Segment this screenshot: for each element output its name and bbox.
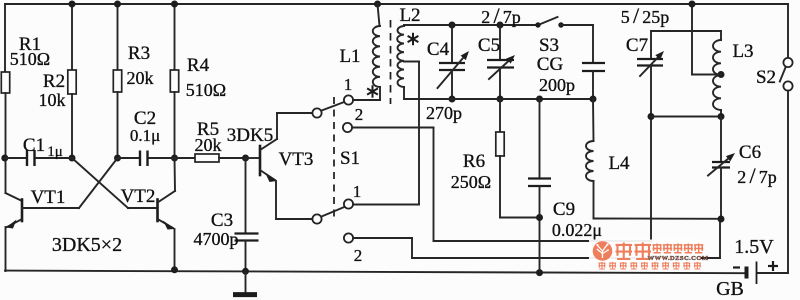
transistor VT3 <box>246 157 259 159</box>
wire contact1 to L1 bottom <box>353 99 380 101</box>
contact 2 upper <box>343 123 352 132</box>
svg-text:S3: S3 <box>539 35 559 56</box>
node C7 bottom junction <box>648 113 655 120</box>
switch S1 mechanical link (dashed) <box>333 97 335 218</box>
wire ground rail bottom <box>5 271 746 274</box>
svg-text:L2: L2 <box>399 5 420 26</box>
battery GB <box>745 267 749 279</box>
svg-text:C4: C4 <box>427 39 450 60</box>
svg-text:1.5V: 1.5V <box>734 236 774 258</box>
svg-text:L3: L3 <box>732 41 753 62</box>
resistor R1 <box>1 72 9 93</box>
contact 1 upper <box>344 95 353 104</box>
node R6/C9 junction <box>536 214 543 221</box>
node CG bottom / L4 top <box>590 96 597 103</box>
svg-text:L1: L1 <box>339 46 360 67</box>
capacitor C9 <box>536 96 543 103</box>
node D VT2 collector junction <box>171 155 178 162</box>
svg-text:C7: C7 <box>626 35 648 56</box>
wire S2 to battery positive <box>787 91 789 273</box>
resistor R3 <box>117 4 119 70</box>
node VT2 emitter on ground rail <box>171 266 178 273</box>
inductor L4 <box>592 99 595 141</box>
svg-text:R3: R3 <box>128 43 150 64</box>
capacitor C4 (variable) <box>449 22 456 29</box>
svg-text:4700p: 4700p <box>194 229 239 249</box>
polarity mark L1 <box>372 85 374 97</box>
resistor R4 <box>174 4 176 70</box>
svg-text:C3: C3 <box>211 210 233 231</box>
svg-text:L4: L4 <box>608 153 630 174</box>
svg-text:CG: CG <box>537 54 564 75</box>
resistor R6 <box>499 99 501 132</box>
svg-text:510Ω: 510Ω <box>186 80 226 100</box>
capacitor C5 (variable) <box>497 22 504 29</box>
ground <box>245 271 247 293</box>
inductor L1 (transformer primary) <box>374 1 381 8</box>
svg-text:0.022μ: 0.022μ <box>552 220 602 240</box>
svg-text:5/25p: 5/25p <box>621 3 670 28</box>
watermark 维库 <box>616 243 633 260</box>
wire S1 upper contact2 to C7 bottom node <box>433 128 435 242</box>
capacitor C2 <box>118 157 139 159</box>
inductor L3 <box>720 31 722 40</box>
watermark 电子市场网 <box>653 244 662 253</box>
wire oscillator bottom rail <box>404 98 593 100</box>
capacitor C1 <box>5 157 26 159</box>
watermark 专业电子元器件交易网站 <box>599 262 606 269</box>
wire contact2 lower to C6 bottom node <box>353 237 412 239</box>
svg-text:200p: 200p <box>539 75 575 95</box>
resistor R5 <box>175 157 196 159</box>
watermark backing <box>589 240 701 263</box>
watermark logo circle <box>593 241 613 261</box>
wire oscillator top rail B <box>403 25 405 26</box>
svg-text:2/7p: 2/7p <box>737 163 777 188</box>
node C9 ground junction <box>536 269 543 276</box>
wire contact2 upper going right <box>352 127 433 129</box>
svg-text:2: 2 <box>354 246 363 265</box>
node E VT3 base / C3 junction <box>242 155 249 162</box>
wire C7 bottom to L3 bottom <box>651 116 721 118</box>
node A VT1 collector junction <box>1 155 8 162</box>
svg-text:R4: R4 <box>187 55 210 76</box>
svg-text:VT3: VT3 <box>279 149 314 170</box>
svg-text:1: 1 <box>344 75 353 94</box>
switch S2 <box>787 4 789 58</box>
capacitor C3 <box>245 158 247 233</box>
svg-text:3DK5×2: 3DK5×2 <box>52 234 122 256</box>
resistor R2 <box>71 4 73 70</box>
svg-text:S2: S2 <box>756 67 776 88</box>
node C6 bottom junction <box>718 216 725 223</box>
wire cross-couple node C to VT1 base <box>79 158 118 208</box>
svg-text:C5: C5 <box>478 35 500 56</box>
svg-text:3DK5: 3DK5 <box>227 125 273 146</box>
wire R1 bottom to collector node A <box>5 93 7 158</box>
node C4 bottom <box>449 96 456 103</box>
svg-text:WWW.DZSC.COM: WWW.DZSC.COM <box>648 255 709 262</box>
svg-text:GB: GB <box>716 278 744 300</box>
svg-text:20k: 20k <box>127 68 154 88</box>
wire contact1 lower to L2 tap <box>353 204 419 206</box>
svg-text:C6: C6 <box>739 142 761 163</box>
switch S1 pole 2 (lower, from VT3 emitter) <box>312 214 321 223</box>
capacitor C6 (variable) <box>720 117 722 163</box>
wire left edge down from rail <box>4 4 6 72</box>
transistor VT1 <box>6 193 23 201</box>
wire L4 bottom to C6 bottom node <box>594 218 722 220</box>
svg-text:250Ω: 250Ω <box>451 172 491 192</box>
svg-text:0.1μ: 0.1μ <box>130 126 160 145</box>
node L3 bottom junction <box>718 113 725 120</box>
svg-text:VT2: VT2 <box>121 186 156 207</box>
switch S1 pole 1 (upper, from VT3 collector) <box>312 108 321 117</box>
node C3 ground junction <box>242 268 249 275</box>
wire top supply rail <box>5 3 788 5</box>
svg-text:1: 1 <box>353 182 362 201</box>
capacitor C7 (variable) <box>650 31 652 59</box>
svg-text:10k: 10k <box>39 90 66 110</box>
svg-text:1μ: 1μ <box>47 144 63 160</box>
node C5 bottom <box>497 96 504 103</box>
transistor VT2 <box>72 158 128 208</box>
contact 1 lower <box>344 199 353 208</box>
transformer core (dashed) <box>390 20 392 104</box>
svg-text:270p: 270p <box>426 103 462 123</box>
svg-text:2: 2 <box>355 105 364 124</box>
wire C7 top to L3 top <box>651 30 721 32</box>
svg-text:VT1: VT1 <box>31 187 66 208</box>
wire L2 tap <box>404 61 419 63</box>
node B R2 bottom junction <box>69 155 76 162</box>
contact 2 lower <box>344 233 353 242</box>
svg-text:C1: C1 <box>23 135 45 156</box>
svg-text:C9: C9 <box>553 199 575 220</box>
svg-text:S1: S1 <box>340 148 360 169</box>
inductor L2 (transformer secondary) <box>397 26 404 87</box>
svg-text:R6: R6 <box>463 151 485 172</box>
svg-text:R2: R2 <box>43 71 65 92</box>
polarity mark L2 <box>412 33 414 45</box>
svg-text:20k: 20k <box>195 135 222 155</box>
node C R3 bottom junction <box>114 155 121 162</box>
capacitor CG <box>592 25 594 63</box>
svg-text:510Ω: 510Ω <box>10 49 50 69</box>
wire L3 tap to top rail <box>692 74 721 76</box>
switch S3 <box>535 22 540 27</box>
node L3 tap <box>718 71 725 78</box>
